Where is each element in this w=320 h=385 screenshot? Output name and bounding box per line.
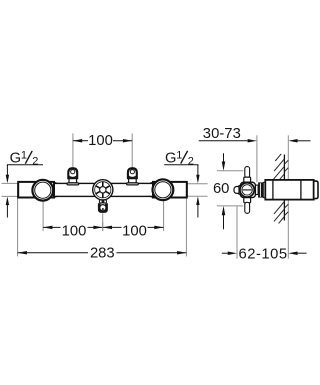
- central hub center circle: [100, 187, 106, 193]
- extension line: bottom dim from right circle center: [163, 190, 165, 198]
- left nipple hole: [71, 170, 75, 174]
- stem: [256, 185, 259, 194]
- G 1/2 left leader underline: [7, 165, 43, 166]
- handle circle outer: [240, 183, 254, 197]
- svg-text:G: G: [10, 151, 21, 167]
- svg-text:60: 60: [213, 181, 229, 197]
- body internal line 2: [300, 180, 302, 200]
- handle hub plate: [240, 182, 255, 197]
- dimension 30-73: line and arrows: [199, 140, 248, 142]
- 30-73 left tick: [256, 135, 258, 182]
- right valve circle outer: [153, 179, 174, 200]
- gap collar: [263, 182, 265, 197]
- extension line: 283 left: [17, 197, 19, 257]
- central bottom fitting body: [98, 203, 108, 213]
- handle left arm: [234, 187, 240, 194]
- extension line: 283 right: [185, 198, 187, 257]
- dimension 100 top: arrows: [73, 139, 82, 143]
- middle tick: [102, 222, 104, 231]
- handle upper arm: [245, 167, 250, 178]
- dimension 62-105: line and arrows: [222, 252, 228, 254]
- central hub outer ring: [93, 180, 113, 200]
- handle circle inner: [242, 185, 252, 195]
- extension line: bottom dim from central fitting: [102, 213, 104, 231]
- svg-text:2: 2: [188, 155, 194, 167]
- G 1/2 label left: [10, 150, 39, 168]
- body internal line 1: [272, 180, 274, 200]
- right nipple flange: [127, 183, 139, 185]
- left boss chamfer: [54, 182, 58, 183]
- svg-text:100: 100: [122, 223, 147, 239]
- svg-text:100: 100: [62, 223, 87, 239]
- left nipple neck: [69, 178, 77, 183]
- extension line: top dim right (from right nipple): [131, 133, 133, 167]
- svg-text:100: 100: [88, 133, 113, 149]
- handle slot line: [243, 189, 252, 191]
- dimension 100 top: line: [73, 140, 88, 142]
- central bottom fitting flange: [99, 200, 107, 204]
- G 1/2 right arrows: [197, 165, 199, 181]
- wall black line above body: [283, 155, 285, 181]
- right nipple shoulder arc: [128, 176, 136, 178]
- right nipple dome: [128, 168, 137, 178]
- handle lower arm: [244, 197, 251, 202]
- central hub spokes: [96, 182, 110, 198]
- right boss: [153, 182, 187, 198]
- left nipple dome: [68, 168, 77, 178]
- main body: [265, 180, 313, 200]
- dimension 283: lines: [18, 252, 88, 254]
- G 1/2 right leader underline: [164, 165, 198, 166]
- left nipple shoulder arc: [69, 176, 77, 178]
- svg-text:62-105: 62-105: [239, 246, 288, 262]
- svg-text:30-73: 30-73: [203, 126, 241, 142]
- wall black line below body: [283, 200, 285, 221]
- central bottom fitting hole: [100, 205, 106, 211]
- extension lines: G1/2 right stub: [187, 183, 207, 185]
- wall gray line: [287, 135, 289, 258]
- wall hatching above: [273, 154, 288, 180]
- extension line: top dim left (from left nipple): [72, 133, 74, 167]
- right boss chamfer: [149, 182, 153, 183]
- svg-text:1: 1: [21, 150, 27, 162]
- bonnet block: [258, 182, 263, 197]
- dimension 60: arrows: [223, 153, 225, 168]
- left boss: [18, 182, 54, 198]
- 60 dim extension lines: [217, 170, 243, 172]
- extension line: bottom dim from left circle center: [42, 190, 44, 198]
- svg-text:2: 2: [32, 155, 38, 167]
- right nipple neck: [129, 178, 137, 183]
- dimension 283: arrows: [18, 251, 27, 255]
- left valve circle inner: [35, 182, 51, 198]
- right valve circle inner: [155, 182, 171, 198]
- end cap: [314, 181, 318, 199]
- svg-text:G: G: [165, 151, 176, 167]
- extension lines: G1/2 left stub: [2, 182, 18, 184]
- dimension 100/100 bottom: arrows: [43, 226, 52, 230]
- svg-text:1: 1: [176, 150, 182, 162]
- tube body: [18, 183, 187, 196]
- wall hatching below: [274, 202, 288, 224]
- dimension 100/100 bottom: lines: [43, 226, 60, 228]
- central hub inner ring: [95, 182, 111, 198]
- left valve circle outer: [32, 180, 53, 201]
- G 1/2 label right: [165, 150, 194, 168]
- G 1/2 left arrows: [6, 165, 8, 181]
- svg-text:283: 283: [90, 246, 115, 262]
- right nipple hole: [130, 170, 134, 174]
- left nipple flange: [67, 183, 79, 185]
- 62-105 left tick: [236, 206, 238, 259]
